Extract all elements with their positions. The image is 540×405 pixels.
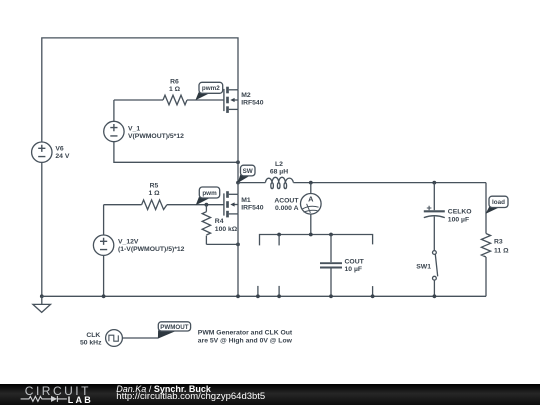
- capacitor CELKO: [424, 183, 472, 251]
- svg-text:pwm2: pwm2: [202, 85, 220, 92]
- junction M1 source bottom: [236, 294, 240, 298]
- svg-text:R3: R3: [494, 238, 503, 245]
- flag pwm2: [195, 82, 222, 100]
- junction CELKO top: [432, 181, 436, 185]
- wire stub bottom b: [278, 286, 280, 296]
- svg-text:V(PWMOUT)/5*12: V(PWMOUT)/5*12: [128, 133, 184, 140]
- svg-text:CLK: CLK: [86, 332, 100, 339]
- transistor M1: [224, 191, 264, 217]
- wire R5 to M1 gate: [167, 204, 224, 206]
- svg-text:100 kΩ: 100 kΩ: [215, 226, 238, 233]
- svg-text:pwm: pwm: [202, 190, 217, 197]
- svg-text:V_12V: V_12V: [118, 238, 139, 245]
- resistor R5: [142, 183, 167, 210]
- svg-text:V6: V6: [55, 146, 64, 153]
- resistor R3: [481, 234, 509, 297]
- svg-text:V_1: V_1: [128, 125, 140, 132]
- wire R6 to M2 gate: [187, 99, 224, 101]
- wire stub bottom a: [257, 286, 259, 296]
- wire right vertical to R3: [485, 183, 487, 234]
- ground: [33, 296, 51, 312]
- capacitor COUT: [320, 235, 365, 297]
- junction mid rail stub: [277, 233, 281, 237]
- junction V_1 / M2 source: [236, 160, 240, 164]
- svg-text:PWM Generator and CLK Out: PWM Generator and CLK Out: [198, 330, 293, 337]
- logo CIRCUIT: [25, 384, 91, 398]
- svg-text:SW: SW: [243, 168, 253, 175]
- voltage source V6: [32, 142, 70, 162]
- svg-text:load: load: [492, 199, 505, 206]
- junction COUT bottom: [329, 294, 333, 298]
- wire M2 source to SW: [237, 109, 239, 182]
- voltage source V_12V: [93, 205, 184, 297]
- svg-text:M2: M2: [241, 92, 251, 99]
- voltage source V_1: [104, 100, 238, 162]
- transistor M2: [224, 87, 264, 113]
- junction ammeter bottom: [309, 233, 313, 237]
- svg-text:24 V: 24 V: [55, 153, 69, 160]
- junction V_12V bottom: [102, 294, 106, 298]
- flag PWMOUT: [158, 322, 191, 339]
- inductor L2: [265, 161, 293, 189]
- url line: [116, 392, 265, 403]
- note PWM generator text: [198, 330, 293, 345]
- svg-text:COUT: COUT: [345, 258, 365, 265]
- svg-text:R6: R6: [170, 79, 179, 86]
- ammeter ACOUT: [274, 183, 321, 235]
- clock source CLK: [80, 330, 122, 347]
- wire R6 rail: [114, 99, 163, 101]
- wire L2 to right corner: [293, 182, 486, 184]
- svg-text:10 µF: 10 µF: [345, 266, 363, 273]
- node SW junction: [236, 181, 240, 185]
- svg-text:R4: R4: [215, 218, 224, 225]
- wire bottom rail: [42, 295, 486, 297]
- svg-text:SW1: SW1: [416, 264, 431, 271]
- svg-text:50 kHz: 50 kHz: [80, 339, 102, 346]
- wire CLK to PWMOUT: [122, 337, 158, 339]
- wire SW to L2: [238, 182, 265, 184]
- svg-text:PWMOUT: PWMOUT: [160, 324, 188, 331]
- logo LAB: [68, 395, 93, 405]
- svg-text:A: A: [308, 194, 314, 203]
- resistor R6: [163, 79, 187, 105]
- svg-text:IRF540: IRF540: [241, 100, 264, 107]
- svg-text:0.000 A: 0.000 A: [275, 205, 299, 212]
- logo squiggle wire + diode: [0, 384, 100, 404]
- svg-text:68 µH: 68 µH: [270, 169, 288, 176]
- svg-text:1 Ω: 1 Ω: [148, 190, 160, 197]
- wire M1 drain to SW: [237, 183, 239, 195]
- wire mid rail: [260, 235, 373, 246]
- svg-text:1 Ω: 1 Ω: [169, 86, 181, 93]
- wire top rail: [42, 38, 238, 142]
- resistor R4: [202, 205, 238, 245]
- switch SW1: [416, 251, 437, 297]
- flag load: [486, 196, 509, 214]
- svg-text:100 µF: 100 µF: [448, 216, 469, 223]
- wire R5 rail: [104, 204, 142, 206]
- svg-text:11 Ω: 11 Ω: [494, 247, 509, 254]
- wire stub bottom c: [372, 286, 374, 296]
- flag SW: [238, 165, 255, 183]
- svg-text:(1-V(PWMOUT)/5)*12: (1-V(PWMOUT)/5)*12: [118, 246, 185, 253]
- junction COUT top: [329, 233, 333, 237]
- svg-text:IRF540: IRF540: [241, 205, 264, 212]
- junction ammeter top: [309, 181, 313, 185]
- svg-text:ACOUT: ACOUT: [274, 197, 299, 204]
- junction R4 bottom: [236, 243, 240, 247]
- wire stub mid: [278, 235, 280, 246]
- junction R4 top: [205, 203, 209, 207]
- svg-text:M1: M1: [241, 197, 251, 204]
- junction ground node: [40, 294, 44, 298]
- svg-text:CELKO: CELKO: [448, 208, 472, 215]
- svg-text:are 5V @ High and 0V @ Low: are 5V @ High and 0V @ Low: [198, 337, 293, 344]
- svg-text:L2: L2: [275, 161, 283, 168]
- footer bar: [0, 384, 540, 405]
- wire left vertical lower: [41, 162, 43, 296]
- junction SW1 bottom: [433, 294, 437, 298]
- credit line: [116, 384, 211, 395]
- wire M1 source down: [237, 214, 239, 296]
- flag pwm: [196, 187, 220, 205]
- svg-text:R5: R5: [150, 183, 159, 190]
